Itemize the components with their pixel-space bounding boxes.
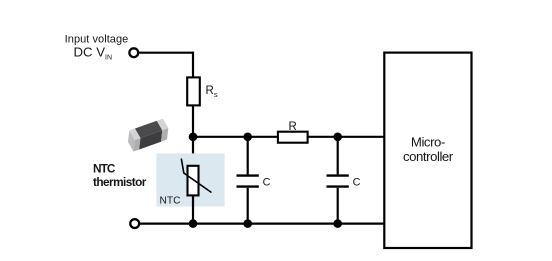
thermistor RT symbol body bbox=[188, 166, 199, 196]
capacitor C1 plates bbox=[237, 176, 259, 187]
capacitor C1 top lead bbox=[247, 137, 249, 175]
svg-text:thermistor: thermistor bbox=[93, 175, 147, 189]
node F junction dot bbox=[333, 219, 342, 228]
resistor Rs bbox=[187, 77, 200, 105]
wire: top rail right segment (R to microcontroller) bbox=[308, 136, 385, 138]
terminal T1 (input, open circle) bbox=[129, 48, 138, 57]
thermistor RT diagonal stroke bbox=[181, 159, 211, 193]
capacitor C1 bottom lead bbox=[247, 188, 249, 224]
label: Input voltage DC VIN bbox=[65, 33, 129, 61]
svg-text:NTC: NTC bbox=[160, 196, 181, 207]
svg-text:Rs: Rs bbox=[206, 85, 218, 99]
svg-text:C: C bbox=[353, 176, 361, 188]
node E junction dot bbox=[243, 219, 252, 228]
node C junction dot bbox=[333, 133, 342, 142]
wire: thermistor to bottom rail bbox=[192, 195, 194, 223]
highlight box around thermistor symbol bbox=[156, 153, 224, 206]
capacitor C2 bottom lead bbox=[337, 188, 339, 224]
node A junction dot bbox=[189, 133, 198, 142]
wire: top rail left segment (node A to R) bbox=[193, 136, 278, 138]
terminal T2 (bottom, open circle) bbox=[130, 219, 139, 228]
wire: T1 to top corner bbox=[138, 52, 193, 54]
svg-text:Micro-: Micro- bbox=[411, 135, 445, 150]
capacitor C2 plates bbox=[327, 176, 349, 187]
wire: bottom rail bbox=[139, 223, 384, 225]
resistor R bbox=[278, 132, 308, 143]
label: NTC thermistor bbox=[93, 162, 147, 190]
svg-text:DC VIN: DC VIN bbox=[74, 45, 113, 62]
node B junction dot bbox=[243, 133, 252, 142]
svg-text:NTC: NTC bbox=[93, 162, 116, 176]
wire: Rs to thermistor bbox=[192, 105, 194, 165]
wire: corner down to Rs bbox=[192, 52, 194, 78]
microcontroller U1 box bbox=[384, 53, 471, 248]
svg-text:controller: controller bbox=[403, 149, 454, 164]
capacitor C2 top lead bbox=[337, 137, 339, 175]
node D junction dot bbox=[189, 219, 198, 228]
label Micro-controller bbox=[403, 135, 454, 165]
svg-text:C: C bbox=[263, 176, 271, 188]
svg-text:R: R bbox=[289, 121, 297, 133]
NTC thermistor photo (chip) bbox=[128, 119, 168, 152]
